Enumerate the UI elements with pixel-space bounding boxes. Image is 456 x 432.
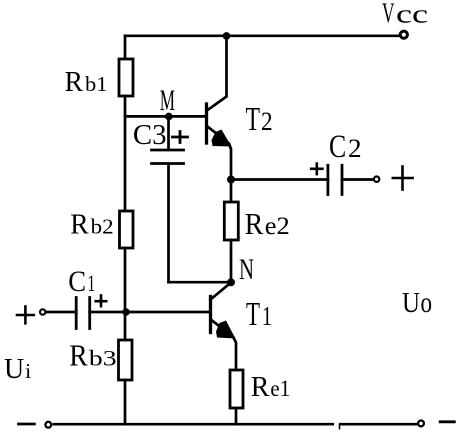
svg-text:U: U (4, 354, 24, 385)
resistor Rb3 (119, 340, 133, 380)
ground terminal right (418, 421, 424, 427)
svg-text:U: U (402, 288, 420, 319)
transistor T2 (207, 36, 232, 180)
node junction top (T2 collector to rail) (223, 32, 231, 40)
plus sign input (17, 307, 34, 324)
plus sign of C3 (173, 132, 188, 143)
resistor Re1 (230, 370, 243, 408)
svg-text:cc: cc (396, 0, 428, 29)
svg-text:2: 2 (348, 134, 362, 163)
svg-text:b2: b2 (91, 215, 114, 239)
node N (227, 278, 235, 286)
transistor T1 (211, 283, 237, 371)
wire left column between Rb2 and Rb3 (124, 248, 127, 341)
wire bottom ground rail right segment (339, 423, 417, 426)
svg-text:C: C (329, 129, 346, 165)
wire output node to C2 (231, 178, 328, 181)
svg-text:R: R (70, 209, 89, 241)
svg-text:1: 1 (88, 271, 96, 296)
node output (T2 emitter / Re2 top) (227, 176, 235, 184)
svg-text:C: C (68, 265, 86, 298)
svg-text:R: R (69, 338, 88, 373)
node M (165, 113, 173, 121)
ground terminal left (45, 422, 51, 428)
capacitor C3 (152, 116, 184, 282)
wire left column Rb3 bottom lead (124, 380, 127, 424)
svg-text:R: R (251, 371, 270, 403)
wire Re2 top lead (230, 180, 233, 203)
svg-text:T: T (246, 296, 260, 333)
svg-text:R: R (65, 66, 84, 98)
svg-text:i: i (25, 359, 31, 383)
capacitor C2 (328, 165, 373, 194)
wire Re2 bottom lead to node N (230, 240, 233, 282)
wire Re1 bottom lead (235, 408, 238, 424)
wire top supply rail (125, 34, 399, 37)
minus sign bottom left (19, 423, 35, 426)
svg-text:N: N (239, 253, 254, 286)
input terminal (40, 309, 45, 314)
svg-text:R: R (245, 206, 264, 241)
svg-text:V: V (382, 0, 395, 30)
minus sign bottom right (440, 420, 454, 423)
resistor Re2 (224, 202, 238, 240)
svg-text:b1: b1 (85, 72, 108, 96)
wire left column Rb1 top lead (124, 36, 127, 60)
svg-text:b3: b3 (89, 346, 117, 371)
Vcc terminal (400, 31, 407, 38)
plus sign right of C1 (96, 296, 107, 307)
wire C3 bottom to node N (169, 281, 232, 284)
svg-text:e2: e2 (265, 213, 290, 240)
wire T2 base wire (125, 115, 206, 118)
svg-text:T: T (246, 101, 261, 138)
wire bottom ground rail left segment (53, 423, 335, 426)
svg-text:o: o (421, 286, 433, 319)
plus sign output (393, 167, 413, 190)
junction tick on bottom rail (339, 424, 341, 428)
svg-text:2: 2 (261, 107, 273, 136)
node base junction (C1 / Rb2 / Rb3) (122, 308, 130, 316)
svg-text:M: M (160, 84, 175, 117)
svg-text:e1: e1 (270, 376, 290, 401)
resistor Rb1 (119, 59, 133, 96)
svg-text:C3: C3 (133, 120, 167, 151)
wire left column between Rb1 and Rb2 (124, 96, 127, 211)
resistor Rb2 (120, 211, 134, 248)
wire T1 base wire (126, 311, 210, 314)
output terminal (374, 177, 379, 182)
capacitor C1 (46, 298, 127, 329)
svg-text:1: 1 (262, 301, 272, 331)
plus sign left of C2 (311, 164, 322, 175)
